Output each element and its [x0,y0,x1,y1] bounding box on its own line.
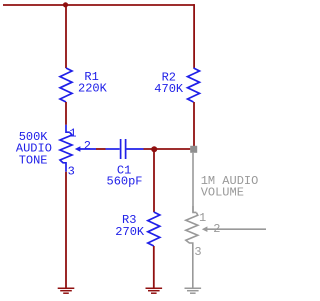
svg-text:3: 3 [194,245,201,259]
svg-text:1: 1 [69,127,76,141]
node pad connection [190,146,197,153]
svg-text:2: 2 [213,222,220,236]
node junction mid [151,146,157,152]
ground left [58,288,75,293]
svg-text:560pF: 560pF [107,175,143,189]
ground middle [146,288,163,293]
wire pot to ground [65,172,67,288]
potentiometer 1M AUDIO VOLUME body (gray) [193,206,196,212]
svg-text:1: 1 [199,211,206,225]
resistor R2 [188,68,200,102]
svg-text:TONE: TONE [19,153,48,167]
capacitor C1 [106,139,144,159]
volume pot wiper arrow (gray) [202,226,208,232]
wire R3 to ground [153,246,155,288]
svg-text:2: 2 [84,139,91,153]
svg-text:220K: 220K [78,81,108,95]
wire wiper to C1 [96,148,106,150]
wire pad to volume pot (gray) [192,153,194,213]
svg-text:470K: 470K [154,82,184,96]
svg-text:270K: 270K [115,225,145,239]
pot wiper arrow [75,146,81,152]
wire top horizontal [3,4,194,6]
svg-text:VOLUME: VOLUME [201,185,244,199]
wire R1 to pot [65,102,67,125]
resistor R1 [60,68,72,102]
resistor R3 [148,212,160,246]
wire left vertical to R1 [65,5,67,68]
wire R2 down to pad [193,102,195,146]
wire volume pot to ground (gray) [192,252,194,288]
ground right (gray) [185,288,202,293]
wire junction to R3 [153,149,155,212]
svg-text:3: 3 [68,164,75,178]
wire right vertical to R2 [193,4,195,68]
wire C1 to pad [144,148,191,150]
potentiometer 500K AUDIO TONE body [66,125,70,132]
node junction top [63,2,68,7]
